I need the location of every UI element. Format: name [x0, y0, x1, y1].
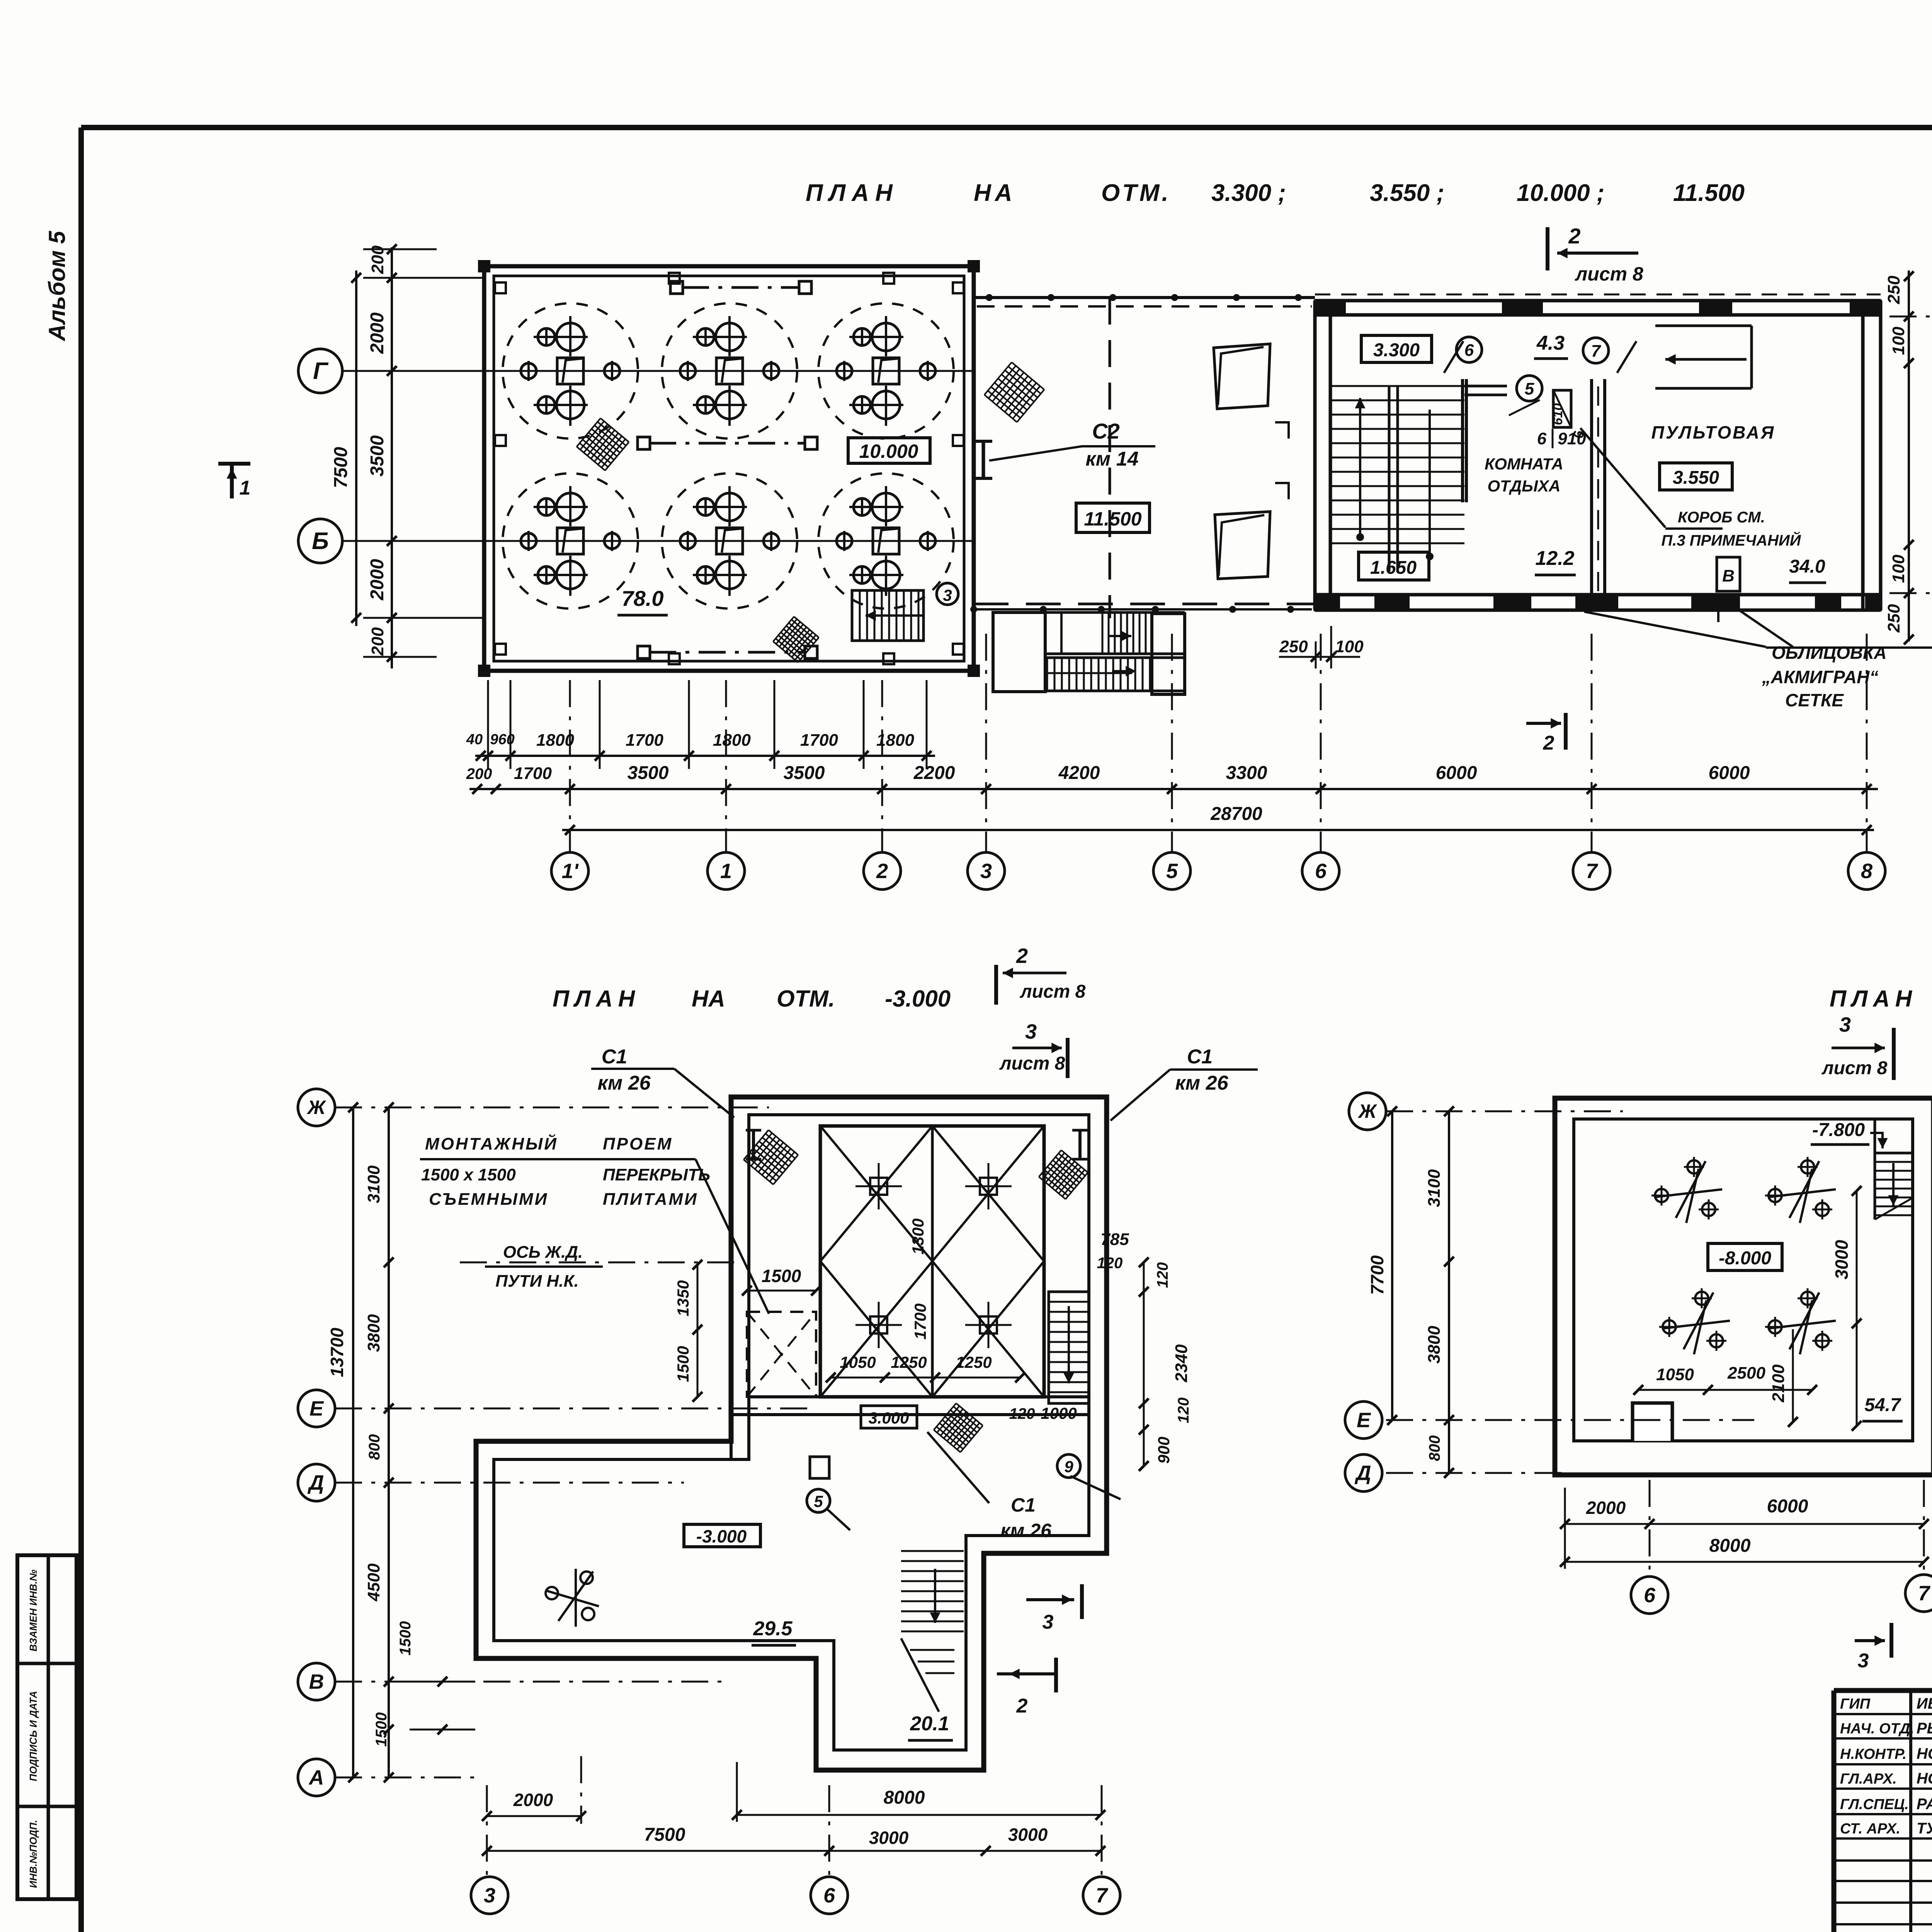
svg-text:120: 120	[1097, 1255, 1123, 1272]
svg-text:250: 250	[1884, 604, 1903, 633]
svg-text:А: А	[308, 1766, 324, 1789]
svg-text:СТ. АРХ.: СТ. АРХ.	[1840, 1821, 1900, 1837]
svg-text:ТУСОВА: ТУСОВА	[1917, 1820, 1932, 1837]
svg-text:7500: 7500	[644, 1825, 685, 1845]
svg-text:С2: С2	[1092, 419, 1120, 443]
svg-text:Ж: Ж	[306, 1097, 327, 1118]
svg-text:2000: 2000	[367, 312, 388, 354]
svg-text:км 26: км 26	[1175, 1072, 1228, 1094]
svg-text:2: 2	[876, 859, 888, 883]
svg-text:КОМНАТА: КОМНАТА	[1485, 455, 1563, 473]
svg-text:3: 3	[1043, 1611, 1054, 1633]
svg-text:6000: 6000	[1709, 763, 1750, 783]
svg-text:ПЛИТАМИ: ПЛИТАМИ	[603, 1190, 698, 1209]
svg-text:ИВАНОВА: ИВАНОВА	[1917, 1695, 1932, 1712]
svg-text:11.500: 11.500	[1673, 180, 1745, 206]
svg-text:С1: С1	[1187, 1046, 1213, 1068]
svg-text:2500: 2500	[1727, 1364, 1765, 1383]
svg-text:900: 900	[1155, 1437, 1173, 1464]
svg-text:СЕТКЕ: СЕТКЕ	[1785, 690, 1844, 710]
svg-text:100: 100	[1335, 637, 1364, 656]
svg-text:ПЛАН: ПЛАН	[1830, 986, 1917, 1012]
svg-text:13700: 13700	[327, 1328, 347, 1377]
svg-text:6: 6	[1315, 859, 1327, 883]
svg-text:3000: 3000	[1832, 1240, 1852, 1279]
svg-text:2000: 2000	[367, 559, 388, 600]
svg-text:6: 6	[1464, 341, 1474, 360]
svg-text:1700: 1700	[911, 1303, 929, 1339]
svg-text:-3.000: -3.000	[885, 986, 951, 1012]
svg-text:3: 3	[484, 1884, 495, 1907]
svg-text:1500: 1500	[674, 1346, 692, 1382]
svg-text:960: 960	[490, 731, 514, 748]
svg-text:6: 6	[1537, 429, 1547, 448]
svg-text:1500: 1500	[762, 1266, 801, 1286]
svg-text:Альбом 5: Альбом 5	[44, 230, 70, 342]
svg-text:3100: 3100	[364, 1165, 383, 1203]
svg-text:2: 2	[1543, 732, 1554, 754]
svg-text:29.5: 29.5	[753, 1617, 793, 1640]
svg-text:НА: НА	[692, 986, 725, 1012]
svg-text:3000: 3000	[869, 1828, 909, 1848]
svg-text:1500 х 1500: 1500 х 1500	[421, 1165, 516, 1184]
svg-text:СЪЕМНЫМИ: СЪЕМНЫМИ	[429, 1190, 548, 1209]
svg-text:3.000: 3.000	[868, 1409, 909, 1427]
svg-text:2: 2	[1016, 944, 1028, 968]
svg-text:1050: 1050	[840, 1353, 876, 1371]
svg-text:1700: 1700	[514, 764, 552, 783]
svg-text:Е: Е	[1357, 1408, 1371, 1432]
svg-text:1800: 1800	[536, 731, 574, 750]
svg-text:40: 40	[466, 731, 483, 748]
svg-text:2200: 2200	[913, 763, 955, 783]
svg-text:„АКМИГРАН“: „АКМИГРАН“	[1762, 667, 1878, 687]
svg-text:Д: Д	[308, 1471, 324, 1494]
svg-text:10.000 ;: 10.000 ;	[1517, 180, 1605, 206]
svg-text:ПЛАН: ПЛАН	[553, 986, 640, 1012]
svg-text:МОНТАЖНЫЙ: МОНТАЖНЫЙ	[425, 1134, 558, 1153]
svg-text:7700: 7700	[1367, 1255, 1387, 1295]
svg-text:НА: НА	[974, 180, 1016, 206]
svg-text:3: 3	[1858, 1650, 1869, 1672]
svg-text:7: 7	[1586, 859, 1599, 883]
svg-text:1050: 1050	[1656, 1365, 1694, 1384]
svg-text:6: 6	[1644, 1583, 1656, 1607]
svg-text:-7.800: -7.800	[1812, 1120, 1865, 1140]
svg-text:8000: 8000	[884, 1787, 925, 1808]
svg-text:2340: 2340	[1172, 1344, 1191, 1383]
svg-text:2: 2	[1016, 1695, 1028, 1717]
svg-text:100: 100	[1889, 327, 1908, 355]
svg-text:лист 8: лист 8	[999, 1053, 1065, 1074]
svg-text:С1: С1	[1011, 1494, 1036, 1516]
svg-text:78.0: 78.0	[622, 586, 664, 611]
svg-text:8000: 8000	[1709, 1536, 1751, 1556]
svg-text:54.7: 54.7	[1864, 1395, 1901, 1415]
svg-text:лист 8: лист 8	[1575, 263, 1643, 285]
svg-text:ОСЬ Ж.Д.: ОСЬ Ж.Д.	[503, 1243, 583, 1262]
svg-text:1700: 1700	[626, 731, 663, 750]
svg-text:910: 910	[1558, 429, 1586, 448]
svg-text:3.300 ;: 3.300 ;	[1211, 180, 1286, 206]
svg-text:Д: Д	[1355, 1461, 1371, 1485]
svg-text:34.0: 34.0	[1789, 556, 1825, 577]
svg-text:5: 5	[814, 1492, 823, 1510]
svg-text:Е: Е	[310, 1397, 324, 1420]
svg-text:ПОДПИСЬ И ДАТА: ПОДПИСЬ И ДАТА	[27, 1691, 39, 1781]
svg-text:1800: 1800	[713, 731, 751, 750]
svg-text:НОРМАНН: НОРМАНН	[1917, 1745, 1932, 1762]
svg-text:ГИП: ГИП	[1840, 1696, 1871, 1712]
svg-text:7: 7	[1591, 342, 1602, 361]
svg-text:6000: 6000	[1767, 1496, 1808, 1517]
svg-text:1700: 1700	[800, 731, 838, 750]
svg-text:4.3: 4.3	[1536, 332, 1565, 354]
svg-text:250: 250	[1279, 637, 1308, 656]
svg-text:3500: 3500	[628, 763, 669, 783]
svg-text:1: 1	[240, 477, 251, 499]
svg-text:лист 8: лист 8	[1020, 981, 1086, 1002]
svg-text:610: 610	[1551, 403, 1565, 425]
svg-text:км 14: км 14	[1085, 448, 1138, 470]
svg-text:ПЛАН: ПЛАН	[806, 180, 899, 206]
svg-text:ВЗАМЕН ИНВ.№: ВЗАМЕН ИНВ.№	[27, 1570, 39, 1651]
svg-text:7: 7	[1096, 1884, 1109, 1907]
svg-text:ГЛ.АРХ.: ГЛ.АРХ.	[1840, 1771, 1897, 1787]
svg-text:800: 800	[366, 1434, 383, 1460]
svg-text:лист 8: лист 8	[1821, 1058, 1888, 1078]
svg-text:800: 800	[1426, 1435, 1443, 1461]
svg-text:250: 250	[1884, 276, 1903, 304]
svg-text:ОТМ.: ОТМ.	[1101, 180, 1171, 206]
svg-text:10.000: 10.000	[859, 440, 918, 462]
svg-text:3.550 ;: 3.550 ;	[1370, 180, 1444, 206]
svg-text:200: 200	[368, 627, 387, 656]
svg-text:3500: 3500	[784, 763, 825, 783]
svg-text:Н.КОНТР.: Н.КОНТР.	[1840, 1746, 1906, 1762]
svg-text:1': 1'	[562, 859, 579, 883]
svg-text:ПРОЕМ: ПРОЕМ	[603, 1134, 673, 1153]
svg-text:1300: 1300	[909, 1218, 927, 1254]
svg-text:5: 5	[1166, 859, 1178, 883]
svg-text:120: 120	[1154, 1262, 1171, 1288]
svg-text:785: 785	[1100, 1230, 1129, 1249]
svg-text:1350: 1350	[674, 1280, 692, 1316]
svg-text:3100: 3100	[1425, 1169, 1444, 1207]
svg-text:3: 3	[1025, 1020, 1037, 1043]
svg-text:В: В	[309, 1670, 324, 1693]
svg-text:12.2: 12.2	[1535, 547, 1574, 570]
svg-text:КОРОБ СМ.: КОРОБ СМ.	[1678, 509, 1765, 526]
svg-text:2000: 2000	[513, 1790, 553, 1810]
svg-text:3: 3	[1839, 1013, 1851, 1036]
svg-text:ОТДЫХА: ОТДЫХА	[1488, 477, 1561, 495]
svg-text:ИНВ.№ПОДП.: ИНВ.№ПОДП.	[27, 1820, 39, 1888]
svg-text:1250: 1250	[891, 1353, 927, 1371]
svg-text:3.550: 3.550	[1673, 468, 1719, 488]
svg-text:7: 7	[1918, 1582, 1931, 1605]
svg-text:1: 1	[720, 859, 732, 883]
svg-text:НАЧ. ОТД.: НАЧ. ОТД.	[1840, 1721, 1914, 1737]
svg-text:ОБЛИЦОВКА: ОБЛИЦОВКА	[1772, 643, 1887, 663]
svg-text:6: 6	[823, 1884, 835, 1907]
svg-text:км 26: км 26	[597, 1072, 651, 1094]
svg-text:РАШЕВСКИЙ: РАШЕВСКИЙ	[1917, 1794, 1932, 1813]
svg-text:1000: 1000	[1041, 1404, 1077, 1422]
svg-text:1500: 1500	[397, 1621, 414, 1656]
svg-text:100: 100	[1889, 554, 1908, 583]
svg-text:2000: 2000	[1586, 1498, 1626, 1518]
svg-text:В: В	[1722, 566, 1735, 585]
svg-text:11.500: 11.500	[1084, 508, 1141, 530]
svg-text:км 26: км 26	[1000, 1520, 1052, 1541]
svg-text:Б: Б	[312, 528, 329, 554]
svg-text:7500: 7500	[331, 447, 351, 488]
svg-text:3300: 3300	[1226, 763, 1267, 783]
svg-text:4500: 4500	[364, 1563, 383, 1602]
svg-text:9: 9	[1064, 1458, 1073, 1476]
svg-text:5: 5	[1525, 379, 1534, 398]
svg-text:ПУТИ Н.К.: ПУТИ Н.К.	[495, 1272, 578, 1291]
svg-text:ПУЛЬТОВАЯ: ПУЛЬТОВАЯ	[1651, 422, 1776, 442]
svg-text:П.3 ПРИМЕЧАНИЙ: П.3 ПРИМЕЧАНИЙ	[1661, 531, 1801, 549]
svg-text:120: 120	[1175, 1398, 1192, 1423]
svg-text:1250: 1250	[956, 1353, 992, 1371]
svg-text:3.300: 3.300	[1373, 340, 1420, 361]
svg-text:3: 3	[943, 586, 952, 604]
svg-text:3: 3	[980, 859, 992, 883]
svg-text:3500: 3500	[367, 435, 388, 476]
svg-text:3800: 3800	[364, 1314, 383, 1352]
svg-text:Ж: Ж	[1357, 1100, 1378, 1122]
svg-text:1500: 1500	[373, 1713, 390, 1747]
svg-text:-3.000: -3.000	[696, 1526, 747, 1546]
svg-text:8: 8	[1861, 859, 1872, 883]
svg-text:200: 200	[368, 245, 387, 274]
svg-text:120: 120	[1009, 1405, 1035, 1422]
svg-text:2100: 2100	[1769, 1364, 1788, 1403]
svg-text:ОТМ.: ОТМ.	[777, 986, 835, 1012]
svg-text:200: 200	[466, 765, 492, 782]
svg-text:1.650: 1.650	[1370, 558, 1417, 578]
svg-text:6000: 6000	[1436, 763, 1477, 783]
svg-text:28700: 28700	[1210, 804, 1262, 824]
svg-text:-8.000: -8.000	[1719, 1248, 1771, 1269]
svg-text:РЫБКИНА: РЫБКИНА	[1917, 1720, 1932, 1737]
svg-text:20.1: 20.1	[910, 1713, 949, 1735]
svg-text:Г: Г	[313, 358, 329, 384]
svg-text:ГЛ.СПЕЦ.: ГЛ.СПЕЦ.	[1840, 1796, 1909, 1813]
svg-text:2: 2	[1568, 224, 1580, 248]
svg-text:3800: 3800	[1425, 1326, 1444, 1364]
svg-text:3000: 3000	[1008, 1825, 1048, 1845]
svg-text:С1: С1	[602, 1046, 627, 1068]
svg-text:4200: 4200	[1058, 763, 1100, 783]
svg-text:НОРМАНН: НОРМАНН	[1917, 1770, 1932, 1787]
svg-text:ПЕРЕКРЫТЬ: ПЕРЕКРЫТЬ	[603, 1165, 710, 1184]
